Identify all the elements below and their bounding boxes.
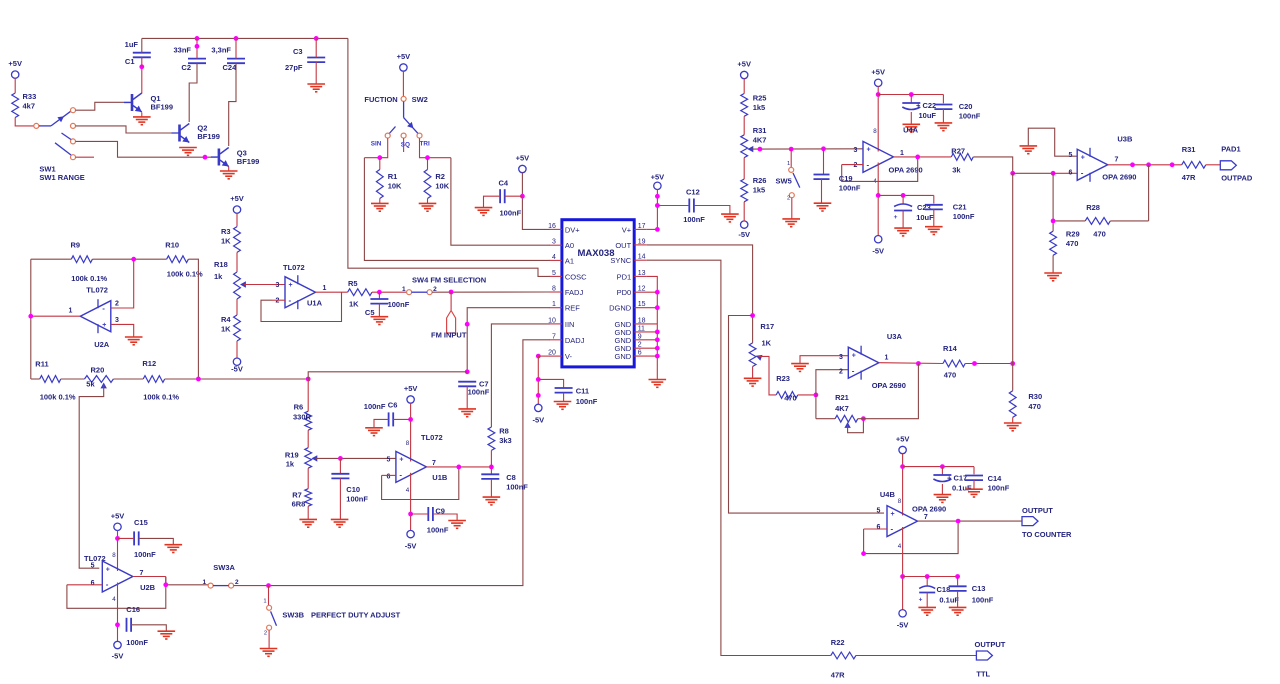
pin 16 DV+ (left) bbox=[548, 223, 580, 235]
ground under SW3B bbox=[260, 649, 278, 657]
switch SW4 contact 1 bbox=[402, 286, 412, 295]
svg-text:5: 5 bbox=[552, 270, 556, 277]
svg-text:R27: R27 bbox=[951, 147, 965, 156]
svg-text:-5V: -5V bbox=[738, 230, 750, 239]
switch SW2 contact TRI bbox=[417, 133, 422, 138]
ground under C20 bbox=[935, 123, 953, 131]
node U2A out left rail bbox=[28, 314, 33, 319]
pin 1 label U1A bbox=[323, 285, 327, 292]
svg-text:4: 4 bbox=[552, 254, 556, 261]
svg-text:100k 0.1%: 100k 0.1% bbox=[167, 270, 203, 279]
node V- corner bbox=[536, 354, 541, 359]
wire U3B node to R30 bbox=[1012, 173, 1014, 390]
resistor R7 bbox=[292, 489, 312, 509]
capacitor C21 bbox=[925, 195, 975, 221]
node C17 bbox=[940, 464, 945, 469]
wire +5V to R25 bbox=[743, 78, 745, 93]
svg-text:-: - bbox=[106, 580, 109, 589]
svg-text:8: 8 bbox=[406, 440, 410, 447]
svg-text:1K: 1K bbox=[349, 300, 359, 309]
svg-text:6: 6 bbox=[387, 474, 391, 481]
node Q1 collector bbox=[139, 64, 144, 69]
switch SW3B contact 1 bbox=[263, 599, 271, 611]
wire R21 wiper jumper bbox=[848, 419, 864, 433]
svg-text:-5V: -5V bbox=[897, 621, 909, 630]
svg-text:6: 6 bbox=[1069, 170, 1073, 177]
svg-text:+5V: +5V bbox=[516, 154, 530, 163]
svg-text:R31: R31 bbox=[753, 126, 767, 135]
wire FM input stub bbox=[450, 292, 452, 311]
svg-text:FADJ: FADJ bbox=[565, 288, 584, 297]
wire R9 to R10 bbox=[92, 258, 166, 260]
svg-text:+: + bbox=[852, 353, 856, 360]
svg-text:U2A: U2A bbox=[94, 340, 110, 349]
svg-text:16: 16 bbox=[548, 223, 556, 230]
power port -5V (V-) bbox=[532, 404, 544, 424]
svg-text:R17: R17 bbox=[760, 322, 774, 331]
pin 8 FADJ (left) bbox=[549, 286, 583, 298]
svg-text:1uF: 1uF bbox=[125, 40, 139, 49]
svg-text:-5V: -5V bbox=[231, 365, 243, 374]
op-amp U2B bbox=[102, 561, 155, 592]
svg-text:-: - bbox=[1081, 168, 1084, 177]
wire R20 to R12 bbox=[113, 378, 143, 380]
svg-text:100nF: 100nF bbox=[683, 215, 705, 224]
capacitor C5 bbox=[365, 292, 410, 317]
ground under Q2 emitter bbox=[179, 148, 197, 156]
pin 2 GND (right) bbox=[615, 342, 658, 354]
svg-text:A0: A0 bbox=[565, 241, 574, 250]
wire REF to C7 bbox=[467, 308, 550, 372]
svg-text:13: 13 bbox=[638, 270, 646, 277]
svg-text:10K: 10K bbox=[388, 182, 402, 191]
wire U4B output bbox=[918, 520, 1023, 522]
pin 2 label U3A bbox=[839, 369, 843, 376]
svg-text:3k: 3k bbox=[952, 166, 961, 175]
wire U1B pin4 down bbox=[410, 473, 412, 531]
label TL072 U2B bbox=[84, 554, 106, 563]
switch SW3B arm bbox=[271, 611, 277, 625]
pin 3 label U2A bbox=[115, 317, 119, 324]
ground under R17 bbox=[744, 378, 762, 386]
svg-text:1K: 1K bbox=[221, 325, 231, 334]
capacitor C2 bbox=[173, 46, 206, 73]
svg-text:33nF: 33nF bbox=[173, 46, 191, 55]
svg-text:DGND: DGND bbox=[609, 304, 632, 313]
svg-text:C16: C16 bbox=[126, 605, 140, 614]
svg-text:TRI: TRI bbox=[420, 140, 431, 147]
pin 6 label U3B bbox=[1069, 170, 1073, 177]
wire +5V to DV+ bbox=[522, 173, 549, 230]
wire C11 branch bbox=[538, 379, 563, 388]
switch SW1 arm bbox=[39, 111, 71, 126]
svg-text:+: + bbox=[399, 457, 403, 464]
label FM INPUT bbox=[431, 331, 467, 340]
switch SW2 unused arm bbox=[389, 127, 395, 134]
wire SW1-2 to Q2 base bbox=[76, 126, 178, 133]
node C11 branch bbox=[536, 377, 541, 382]
svg-text:R26: R26 bbox=[753, 176, 767, 185]
resistor R25 bbox=[741, 94, 767, 117]
ground at U3A pin3 bbox=[791, 364, 809, 372]
pin 4 A1 (left) bbox=[549, 254, 574, 266]
wire +5V to U2B pin8 bbox=[117, 530, 119, 571]
wire U3A output bbox=[879, 362, 943, 365]
node V+ corner bbox=[655, 227, 660, 232]
svg-text:8: 8 bbox=[112, 552, 116, 559]
resistor R12 bbox=[142, 359, 179, 402]
ground under C8 bbox=[483, 497, 501, 505]
svg-text:1k5: 1k5 bbox=[753, 186, 766, 195]
svg-text:U2B: U2B bbox=[140, 583, 156, 592]
svg-text:R2: R2 bbox=[435, 172, 445, 181]
wire C22 to ground bbox=[910, 112, 912, 124]
wire R28 right bbox=[1110, 220, 1148, 222]
svg-text:100nF: 100nF bbox=[972, 596, 994, 605]
wire OUT to U4B pin5 bbox=[729, 316, 885, 514]
wire U3B in to pin6 bbox=[1013, 172, 1053, 174]
svg-text:R10: R10 bbox=[165, 241, 179, 250]
resistor R3 bbox=[221, 227, 240, 253]
svg-text:2: 2 bbox=[853, 162, 857, 169]
wire R26 to -5V bbox=[743, 202, 745, 221]
svg-text:C13: C13 bbox=[972, 584, 986, 593]
node U3A out bbox=[916, 361, 921, 366]
ground under C11 bbox=[554, 402, 572, 410]
wire node to U3A pin2 bbox=[816, 370, 848, 395]
svg-text:R28: R28 bbox=[1086, 203, 1100, 212]
svg-text:+5V: +5V bbox=[230, 194, 244, 203]
capacitor C6 bbox=[364, 401, 398, 427]
svg-text:+: + bbox=[891, 511, 895, 518]
ground under Q1 emitter bbox=[133, 113, 151, 125]
svg-text:OUTPUT: OUTPUT bbox=[1022, 506, 1053, 515]
wire rail to C2 bbox=[195, 38, 200, 58]
svg-text:+5V: +5V bbox=[8, 59, 22, 68]
wire U1A pin2 stub bbox=[272, 299, 285, 301]
svg-text:+5V: +5V bbox=[397, 52, 411, 61]
svg-text:R25: R25 bbox=[753, 94, 767, 103]
ground chip GND chain bbox=[649, 380, 667, 388]
resistor R23 bbox=[776, 374, 798, 403]
pin 7 label U4B bbox=[924, 514, 928, 521]
svg-text:FUCTION: FUCTION bbox=[364, 95, 397, 104]
power port -5V (U1B) bbox=[405, 530, 417, 550]
svg-text:-5V: -5V bbox=[532, 416, 544, 425]
node C12 bbox=[655, 203, 660, 208]
ground at C4 bbox=[475, 208, 493, 216]
power port -5V (U4A) bbox=[872, 236, 884, 256]
svg-text:100nF: 100nF bbox=[988, 484, 1010, 493]
svg-text:12: 12 bbox=[638, 286, 646, 293]
wire C4 left to ground bbox=[484, 196, 501, 207]
svg-text:PD0: PD0 bbox=[617, 288, 632, 297]
power port +5V (U4A) bbox=[871, 67, 885, 86]
svg-text:COSC: COSC bbox=[565, 272, 587, 281]
wire U2A pin2 to node bbox=[111, 259, 134, 308]
svg-text:470: 470 bbox=[1066, 239, 1079, 248]
resistor R30 bbox=[1009, 391, 1042, 418]
capacitor C23 bbox=[894, 195, 935, 222]
node rail C3 bbox=[314, 36, 319, 41]
svg-text:Q2: Q2 bbox=[197, 124, 207, 133]
wire U1B pin6 stub bbox=[382, 474, 396, 476]
svg-text:+: + bbox=[867, 147, 871, 154]
svg-text:18: 18 bbox=[638, 317, 646, 324]
svg-text:1: 1 bbox=[323, 285, 327, 292]
capacitor C14 bbox=[965, 467, 1010, 493]
wire R8 to out node bbox=[490, 450, 492, 467]
wire +5V to V+ pin17 bbox=[647, 189, 658, 229]
svg-text:5: 5 bbox=[387, 457, 391, 464]
svg-text:IIN: IIN bbox=[565, 320, 575, 329]
wire U3B feedback vert bbox=[1148, 165, 1150, 221]
wire R22 to TTL pad bbox=[856, 655, 977, 657]
switch SW2 contact SIN bbox=[385, 133, 390, 138]
capacitor C11 bbox=[555, 387, 598, 407]
ground under C17 bbox=[934, 495, 952, 503]
node GND11 bbox=[655, 330, 660, 335]
node C6 bbox=[408, 417, 413, 422]
capacitor C19 bbox=[814, 149, 861, 193]
label SW3B PERFECT DUTY ADJUST bbox=[282, 611, 400, 620]
wire R20 wiper to U2B bbox=[79, 385, 104, 568]
svg-text:U3A: U3A bbox=[887, 332, 903, 341]
node R1 top bbox=[377, 155, 382, 160]
svg-text:2: 2 bbox=[638, 342, 642, 349]
node U3B out 1 bbox=[1130, 162, 1135, 167]
ground under R2 bbox=[419, 199, 437, 212]
svg-text:SW4 FM SELECTION: SW4 FM SELECTION bbox=[412, 276, 486, 285]
svg-text:2: 2 bbox=[115, 301, 119, 308]
svg-text:5: 5 bbox=[876, 508, 880, 515]
pin 14 SYNC (right) bbox=[610, 254, 646, 266]
svg-text:100nF: 100nF bbox=[506, 483, 528, 492]
svg-text:+5V: +5V bbox=[404, 384, 418, 393]
pin 6 label U2B bbox=[91, 580, 95, 587]
svg-text:C15: C15 bbox=[134, 518, 148, 527]
potentiometer R20 bbox=[85, 366, 114, 389]
svg-text:2: 2 bbox=[276, 298, 280, 305]
svg-text:1: 1 bbox=[885, 355, 889, 362]
wire R11 left bbox=[31, 378, 40, 380]
svg-text:C6: C6 bbox=[388, 401, 398, 410]
ground at C16 bbox=[158, 631, 176, 639]
capacitor C10 bbox=[331, 458, 368, 503]
wire C4 right bbox=[505, 195, 523, 197]
capacitor C1 bbox=[125, 40, 151, 66]
switch SW5 arm bbox=[793, 173, 800, 188]
node R23 R21 bbox=[814, 393, 819, 398]
node right rail R12 bbox=[196, 377, 201, 382]
wire R7 to ground bbox=[307, 506, 309, 519]
svg-text:100nF: 100nF bbox=[126, 638, 148, 647]
svg-text:27pF: 27pF bbox=[285, 63, 303, 72]
resistor R26 bbox=[741, 176, 767, 202]
svg-text:PD1: PD1 bbox=[617, 272, 632, 281]
power port +5V (V+) bbox=[651, 173, 665, 190]
svg-text:+ C17: + C17 bbox=[947, 474, 967, 483]
transistor Q1 bbox=[124, 93, 173, 112]
switch SW5 contact 1 bbox=[787, 161, 794, 172]
pin 2 label U4A bbox=[853, 162, 857, 169]
node C18 bbox=[925, 574, 930, 579]
svg-text:8: 8 bbox=[552, 286, 556, 293]
wire OUT route bbox=[647, 245, 753, 343]
node FM input bbox=[449, 290, 454, 295]
wire U4A pin2 stub bbox=[842, 164, 863, 166]
svg-text:470: 470 bbox=[1093, 230, 1106, 239]
svg-text:GND: GND bbox=[615, 352, 632, 361]
pin 1 REF (left) bbox=[549, 301, 580, 313]
node C22 bbox=[909, 92, 914, 97]
resistor R2 bbox=[424, 158, 450, 199]
svg-text:R19: R19 bbox=[285, 451, 299, 460]
svg-text:V+: V+ bbox=[622, 225, 632, 234]
wire SW3B to ground bbox=[268, 630, 270, 648]
node PD0 gnd bbox=[655, 290, 660, 295]
svg-text:FM INPUT: FM INPUT bbox=[431, 331, 467, 340]
svg-text:R31: R31 bbox=[1182, 145, 1196, 154]
ground under C22 bbox=[903, 124, 921, 132]
svg-text:C10: C10 bbox=[346, 485, 360, 494]
svg-text:3: 3 bbox=[115, 317, 119, 324]
node U4B -5V bbox=[900, 574, 905, 579]
wire U4B pin4 down bbox=[902, 527, 904, 610]
ground at C12 bbox=[721, 214, 739, 222]
svg-text:8: 8 bbox=[898, 498, 902, 505]
wire SW4 to FADJ bbox=[432, 291, 550, 293]
svg-text:BF199: BF199 bbox=[197, 132, 220, 141]
svg-text:17: 17 bbox=[638, 223, 646, 230]
svg-text:R29: R29 bbox=[1066, 230, 1080, 239]
potentiometer R19 bbox=[285, 448, 317, 469]
svg-text:OPA 2690: OPA 2690 bbox=[912, 505, 946, 514]
connector OUTPUT TTL pad bbox=[975, 640, 1006, 679]
wire R25 to R31 bbox=[743, 116, 745, 135]
ground at U3B pin5 bbox=[1020, 146, 1038, 154]
node C13 bbox=[955, 574, 960, 579]
svg-text:R8: R8 bbox=[499, 427, 509, 436]
pin 5 label U4B bbox=[876, 508, 880, 515]
svg-text:3,3nF: 3,3nF bbox=[211, 46, 231, 55]
wire R12 to node bbox=[165, 378, 309, 380]
wire TRI to R2 node bbox=[420, 138, 451, 158]
svg-text:R33: R33 bbox=[23, 92, 37, 101]
ground at C15 bbox=[165, 545, 183, 553]
svg-text:470: 470 bbox=[944, 371, 957, 380]
ground under C5 bbox=[371, 317, 389, 325]
svg-text:-5V: -5V bbox=[405, 542, 417, 551]
svg-text:100nF: 100nF bbox=[346, 495, 368, 504]
svg-text:-: - bbox=[852, 366, 855, 375]
svg-text:6: 6 bbox=[876, 524, 880, 531]
label SW5 bbox=[776, 176, 792, 185]
svg-text:14: 14 bbox=[638, 254, 646, 261]
pin 8 label U1B bbox=[406, 440, 410, 447]
wire C10 to ground bbox=[339, 478, 341, 519]
wire C1 bottom bbox=[141, 57, 143, 67]
svg-text:PERFECT DUTY ADJUST: PERFECT DUTY ADJUST bbox=[311, 611, 401, 620]
node U3B in bbox=[1010, 171, 1015, 176]
wire V- down bbox=[538, 356, 550, 404]
capacitor C16 bbox=[126, 605, 148, 647]
svg-text:+5V: +5V bbox=[737, 60, 751, 69]
svg-text:7: 7 bbox=[1115, 157, 1119, 164]
svg-text:C14: C14 bbox=[988, 474, 1003, 483]
svg-text:-: - bbox=[399, 471, 402, 480]
node U3B out 2 bbox=[1146, 162, 1151, 167]
node R6 top bbox=[306, 377, 311, 382]
svg-text:3: 3 bbox=[276, 282, 280, 289]
switch SW4 contact 2 bbox=[427, 286, 437, 295]
ground under C23 bbox=[894, 228, 912, 236]
svg-text:OPA 2690: OPA 2690 bbox=[872, 381, 906, 390]
wire R14 right bbox=[965, 363, 1013, 365]
svg-text:C1: C1 bbox=[125, 57, 135, 66]
wire R19 wiper to U1B pin5 bbox=[316, 457, 396, 459]
svg-text:-5V: -5V bbox=[872, 247, 884, 256]
svg-text:C21: C21 bbox=[953, 203, 967, 212]
capacitor C12 bbox=[683, 188, 705, 225]
power port +5V (U1B) bbox=[404, 384, 418, 403]
svg-text:8: 8 bbox=[873, 128, 877, 135]
wire R4 to -5V bbox=[236, 341, 238, 358]
wire -5V rail right bbox=[878, 194, 934, 196]
resistor R22 bbox=[831, 638, 856, 680]
svg-text:R12: R12 bbox=[142, 359, 156, 368]
resistor R27 bbox=[951, 147, 973, 175]
svg-text:R11: R11 bbox=[35, 360, 48, 369]
resistor R5 bbox=[348, 279, 372, 309]
label TRI bbox=[420, 140, 431, 147]
node C19 branch bbox=[821, 146, 826, 151]
wire C24 to Q3 collector bbox=[229, 63, 236, 146]
ground under R29 bbox=[1044, 273, 1062, 281]
svg-text:SW3A: SW3A bbox=[213, 563, 235, 572]
svg-text:4k7: 4k7 bbox=[23, 102, 36, 111]
svg-text:100k 0.1%: 100k 0.1% bbox=[143, 393, 179, 402]
resistor R9 bbox=[71, 241, 108, 284]
wire +5V to U4A pin8 bbox=[877, 86, 879, 151]
wire U2B pin4 down bbox=[117, 583, 119, 642]
svg-text:DV+: DV+ bbox=[565, 225, 580, 234]
wire SYNC route to R22 bbox=[647, 260, 831, 655]
svg-text:REF: REF bbox=[565, 304, 580, 313]
svg-text:1: 1 bbox=[263, 599, 266, 605]
wire C3 to ground bbox=[315, 62, 317, 84]
wire R30 to ground bbox=[1012, 417, 1014, 423]
wire C2 to Q2 collector bbox=[189, 63, 197, 122]
svg-text:1K: 1K bbox=[221, 237, 231, 246]
pin 17 V+ (right) bbox=[622, 223, 647, 235]
svg-text:+: + bbox=[894, 214, 898, 221]
pin 7 label U2B bbox=[140, 570, 144, 577]
wire SW3B stub bbox=[268, 586, 270, 606]
wire +5V to U1B pin8 bbox=[410, 403, 412, 462]
wire R10 to right rail bbox=[188, 259, 198, 379]
wire SW5 stub bbox=[790, 149, 792, 167]
wire top rail bbox=[142, 37, 348, 39]
wire A0 route bbox=[451, 158, 550, 246]
transistor Q3 bbox=[211, 148, 259, 167]
wire C21 to ground bbox=[933, 209, 935, 226]
wire +5V rail right U4B bbox=[903, 466, 974, 468]
wire IIN to R8 bbox=[491, 324, 549, 427]
node U3B pin6 bbox=[1051, 171, 1056, 176]
svg-text:-: - bbox=[102, 304, 105, 313]
svg-text:R14: R14 bbox=[943, 344, 958, 353]
